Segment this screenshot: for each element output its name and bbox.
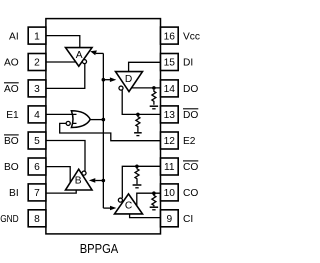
pin 2 xyxy=(28,54,46,71)
pin label DO-bar xyxy=(183,109,198,121)
svg-text:2: 2 xyxy=(34,58,40,69)
svg-text:B: B xyxy=(75,176,82,187)
pin 4 xyxy=(28,106,46,123)
svg-text:13: 13 xyxy=(164,110,176,121)
svg-text:CO: CO xyxy=(183,188,198,199)
svg-text:15: 15 xyxy=(164,58,176,69)
pin 15 xyxy=(161,54,179,71)
wire DO from buffer D to pin 14 xyxy=(131,87,160,89)
svg-text:4: 4 xyxy=(34,110,40,121)
svg-text:12: 12 xyxy=(164,136,176,147)
buffer C xyxy=(115,194,143,214)
node junction CO-bar-R3 xyxy=(135,165,139,169)
pin label CO-bar xyxy=(183,161,198,173)
wire OR gate output to enable trunk xyxy=(90,119,104,121)
pin label DO xyxy=(183,84,198,95)
pin 13 xyxy=(161,106,179,123)
svg-text:DO: DO xyxy=(183,110,198,121)
pin 8 xyxy=(28,210,46,227)
wire CO-bar from buffer C bubble to pin 11 xyxy=(122,166,160,198)
inverting bubble on OR gate E2 input xyxy=(66,121,70,125)
wire enable to buffer B with arrowhead xyxy=(89,178,103,183)
svg-text:BO: BO xyxy=(4,162,19,173)
svg-text:AI: AI xyxy=(9,31,19,42)
pin 16 xyxy=(161,27,179,44)
chip name BPPGA xyxy=(80,241,119,256)
wire BI from pin 7 to buffer B input xyxy=(46,190,76,193)
pin 14 xyxy=(161,80,179,97)
pin label BO xyxy=(4,162,19,173)
pin 10 xyxy=(161,184,179,201)
buffer B xyxy=(66,169,93,190)
pin 5 xyxy=(28,132,46,149)
pin label DI xyxy=(183,58,193,69)
svg-text:8: 8 xyxy=(34,214,40,225)
pin 7 xyxy=(28,184,46,201)
node junction DO-bar-R2 xyxy=(136,113,140,117)
svg-text:E1: E1 xyxy=(6,110,19,121)
svg-text:1: 1 xyxy=(34,31,40,42)
svg-text:6: 6 xyxy=(34,162,40,173)
svg-text:CO: CO xyxy=(183,162,198,173)
pin label GND xyxy=(0,214,19,225)
wire AO from pin 2 to buffer A left edge xyxy=(46,61,77,63)
ground for R4 xyxy=(150,207,158,210)
ground for R1 xyxy=(150,106,158,109)
buffer A xyxy=(66,48,93,67)
wire AI from pin 1 to buffer A input xyxy=(46,36,80,48)
svg-text:DI: DI xyxy=(183,58,193,69)
node junction DO-R1 xyxy=(152,86,156,90)
pin 1 xyxy=(28,27,46,44)
resistor R1 on DO line xyxy=(152,90,156,105)
pin label CI xyxy=(183,214,193,225)
wire DI from pin 15 to buffer D input xyxy=(129,62,161,71)
pin label E1 xyxy=(6,110,19,121)
or-gate U1 enable gate xyxy=(71,111,90,128)
pin label BO-bar xyxy=(4,135,19,147)
resistor R2 on DO-bar line xyxy=(136,116,140,132)
wire E2 from pin 12 to OR gate inverted input xyxy=(60,123,161,140)
svg-text:5: 5 xyxy=(34,136,40,147)
pin label AI xyxy=(9,31,19,42)
wire BO from pin 6 to buffer B left edge xyxy=(46,167,70,183)
pin 12 xyxy=(161,132,179,149)
output bubble of buffer A xyxy=(82,60,86,64)
resistor R3 on CO-bar line xyxy=(135,168,139,184)
buffer D xyxy=(116,72,143,92)
pin label AO xyxy=(4,58,19,69)
node junction CO-R4 xyxy=(152,191,156,195)
output bubble of buffer D xyxy=(119,86,123,90)
svg-text:CI: CI xyxy=(183,214,193,225)
output bubble of buffer B xyxy=(82,171,86,175)
pin label BI xyxy=(9,188,19,199)
svg-text:AO: AO xyxy=(4,84,19,95)
wire CI from pin 9 to buffer C input xyxy=(130,214,161,218)
svg-text:DO: DO xyxy=(183,84,198,95)
svg-text:9: 9 xyxy=(166,214,172,225)
wire AO-bar from pin 3 to buffer A bubble xyxy=(46,64,85,89)
svg-text:A: A xyxy=(76,50,83,61)
ground for R3 xyxy=(133,185,142,188)
svg-text:BI: BI xyxy=(9,188,19,199)
svg-text:GND: GND xyxy=(0,214,19,225)
svg-text:16: 16 xyxy=(164,31,176,42)
pin 11 xyxy=(161,158,179,175)
svg-text:7: 7 xyxy=(34,188,40,199)
svg-text:BO: BO xyxy=(4,136,19,147)
pin 6 xyxy=(28,158,46,175)
output bubble of buffer C xyxy=(118,198,122,202)
svg-text:Vcc: Vcc xyxy=(183,31,200,42)
pin 9 xyxy=(161,210,179,227)
svg-text:D: D xyxy=(125,74,132,85)
svg-text:3: 3 xyxy=(34,84,40,95)
svg-text:10: 10 xyxy=(164,188,176,199)
ground for R2 xyxy=(134,133,142,136)
svg-text:AO: AO xyxy=(4,58,19,69)
node junction enable-D xyxy=(102,78,106,82)
IC body xyxy=(46,19,161,234)
pin label Vcc xyxy=(183,31,200,42)
pin label AO-bar xyxy=(4,83,19,95)
wire enable to buffer D with arrowhead xyxy=(103,77,116,82)
svg-text:11: 11 xyxy=(164,162,175,173)
pin label CO xyxy=(183,188,198,199)
wire enable trunk xyxy=(102,53,104,208)
wire BO-bar from pin 5 to buffer B bubble xyxy=(46,141,85,172)
wire enable to buffer A with arrowhead xyxy=(90,50,103,55)
wire DO-bar from buffer D bubble to pin 13 xyxy=(122,90,160,114)
svg-text:C: C xyxy=(125,201,132,212)
svg-text:14: 14 xyxy=(164,84,176,95)
pin label E2 xyxy=(183,136,196,147)
pin 3 xyxy=(28,80,46,97)
wire CO from buffer C to pin 10 xyxy=(137,193,161,206)
node junction enable-B xyxy=(102,179,106,183)
wire enable to buffer C with arrowhead xyxy=(103,206,116,211)
svg-text:E2: E2 xyxy=(183,136,196,147)
svg-text:BPPGA: BPPGA xyxy=(80,241,119,256)
resistor R4 on CO line xyxy=(152,195,156,206)
node junction enable-OR output xyxy=(102,118,106,122)
wire E1 from pin 4 to OR gate input xyxy=(46,113,77,115)
